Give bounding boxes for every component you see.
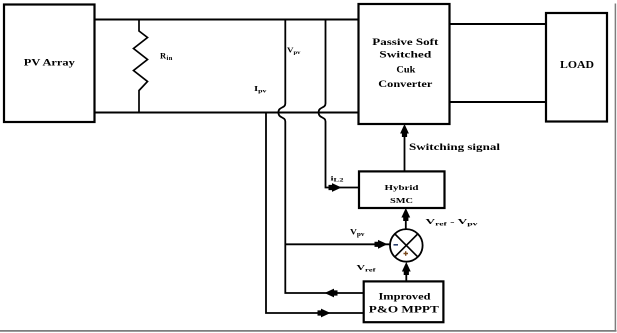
wire: PV top bus: [95, 19, 359, 21]
wire: converter to load top: [450, 23, 547, 25]
wire: Vpv sense line (hops over bottom bus): [278, 20, 363, 294]
svg-text:PV Array: PV Array: [24, 59, 75, 69]
arrow: Ipv into MPPT: [318, 309, 331, 318]
summing junction: [390, 229, 423, 262]
svg-text:P&O MPPT: P&O MPPT: [369, 306, 440, 316]
Hybrid SMC block: [359, 171, 445, 208]
arrow: Vpv into summing junction: [375, 240, 388, 249]
resistor Rin: [134, 20, 148, 113]
wire: PV bottom bus: [95, 112, 359, 114]
wire: converter to load bottom: [450, 101, 547, 103]
svg-text:Converter: Converter: [378, 80, 433, 90]
svg-text:Passive Soft: Passive Soft: [372, 38, 439, 48]
svg-text:Improved: Improved: [379, 293, 432, 303]
wire: iL2 sense line (hops over bottom bus): [319, 20, 359, 188]
svg-text:Hybrid: Hybrid: [385, 183, 420, 192]
svg-text:LOAD: LOAD: [560, 60, 594, 71]
wire: switching signal SMC to converter: [404, 128, 406, 171]
Improved P&O MPPT block: [364, 281, 444, 322]
svg-text:Cuk: Cuk: [396, 65, 416, 75]
converter block U1: Passive Soft Switched Cuk Converter: [359, 4, 450, 124]
wire: Ipv sense line: [266, 113, 364, 314]
arrow: Vref into summing junction: [402, 262, 411, 275]
svg-text:Switched: Switched: [379, 51, 432, 61]
wire: error signal summing junction to SMC: [405, 212, 407, 229]
svg-text:Switching signal: Switching signal: [409, 143, 500, 153]
arrow: Vpv into MPPT (points left): [325, 289, 338, 298]
arrow: iL2 into Hybrid SMC: [329, 183, 342, 192]
arrow: switching signal into converter: [400, 124, 409, 137]
svg-text:SMC: SMC: [390, 196, 413, 205]
wire: Vpv to summing junction: [285, 243, 389, 245]
wire: Vref from MPPT to summing junction: [405, 266, 407, 281]
PV Array block: [4, 5, 95, 123]
arrow: error signal into SMC: [401, 208, 410, 221]
LOAD block: [546, 13, 607, 122]
